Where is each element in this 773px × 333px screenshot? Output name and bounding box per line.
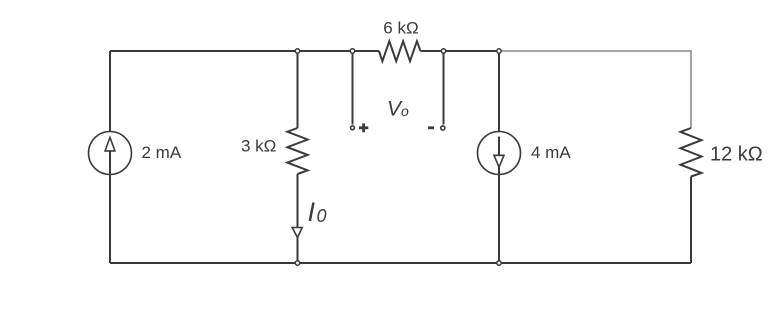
svg-text:4 mA: 4 mA (531, 143, 571, 162)
wire: top bus node D to top-right corner (light gray) (499, 50, 692, 52)
wire: stub from node B down to + terminal (352, 51, 354, 125)
node D junction (top of 4mA) (497, 49, 501, 53)
current source I2 arrowhead (open, down) (494, 155, 504, 167)
wire: top bus from left corner to 6k resistor (dark) (110, 50, 379, 52)
wire: 3k branch from node A down to resistor (297, 51, 299, 128)
svg-text:Vo: Vo (387, 97, 409, 120)
svg-text:6 kΩ: 6 kΩ (383, 19, 418, 38)
terminal: Vo + open terminal (351, 126, 355, 130)
terminal: Vo - open terminal (441, 126, 445, 130)
wire: left branch above 2mA source (109, 51, 111, 132)
current source I1 2 mA circle (89, 132, 132, 175)
wire: top bus from 6k resistor to node D (dark) (421, 50, 500, 52)
node C junction (top of - stub) (441, 49, 445, 53)
svg-text:I0: I0 (308, 197, 327, 227)
node F junction (bottom of 4mA) (497, 261, 501, 265)
wire: 4mA branch below source (498, 167, 500, 263)
svg-text:2 mA: 2 mA (142, 143, 182, 162)
wire: right vertical drop to 12k resistor (light gray) (690, 51, 692, 128)
Io arrowhead (open, down) on 3k branch (292, 228, 302, 238)
resistor R1 6 kOhm (horizontal zigzag) (379, 41, 421, 61)
node B junction (top of + stub) (350, 49, 354, 53)
wire: bottom bus (110, 262, 691, 264)
resistor R2 3 kOhm (vertical zigzag) (287, 128, 307, 174)
svg-text:12 kΩ: 12 kΩ (710, 143, 763, 165)
current source I2 arrow shaft (498, 137, 500, 155)
wire: 12k branch below resistor (690, 177, 692, 264)
label: + polarity mark (359, 123, 368, 132)
wire: stub from node C down to - terminal (443, 51, 445, 125)
wire: left branch below 2mA source (109, 175, 111, 264)
current source I1 arrowhead (open, up) (105, 137, 115, 151)
wire: 3k branch resistor to bottom node (with Io arrow) (297, 174, 299, 263)
svg-text:3 kΩ: 3 kΩ (241, 137, 276, 156)
current source I2 4 mA circle (478, 132, 521, 175)
resistor R3 12 kOhm (vertical zigzag) (681, 128, 702, 177)
current source I1 arrow shaft (109, 151, 111, 175)
node E junction (bottom of 3k) (295, 261, 299, 265)
wire: 4mA branch above source (498, 51, 500, 132)
label: - polarity mark (428, 126, 434, 129)
node A junction (top of 3k) (295, 49, 299, 53)
